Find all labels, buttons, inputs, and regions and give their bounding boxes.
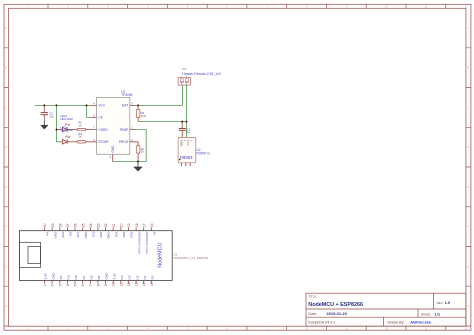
svg-text:22: 22 [104,223,108,227]
svg-text:20: 20 [120,223,124,227]
wire LED branch vertical [57,105,63,141]
svg-text:BAT: BAT [122,104,128,108]
svg-text:CLK: CLK [92,232,96,239]
op-amp U1 TP4056 body [97,98,130,155]
svg-text:EasyEDA V4.9.1: EasyEDA V4.9.1 [308,320,335,324]
wire VCC top rail [35,104,90,106]
svg-text:H: H [5,306,7,308]
svg-text:Header Female-2.54_1x2: Header Female-2.54_1x2 [182,72,221,76]
svg-text:30: 30 [43,223,47,227]
svg-text:25: 25 [81,223,85,227]
svg-text:Vin: Vin [46,232,50,237]
svg-text:24: 24 [89,223,93,227]
svg-text:6: 6 [81,284,85,286]
svg-text:13: 13 [135,282,139,286]
svg-text:LED-3MM: LED-3MM [60,117,73,121]
svg-text:D8: D8 [74,275,78,279]
wire P1 right pin to battery VCC [185,85,187,137]
svg-text:E: E [5,187,7,189]
svg-text:TP4056: TP4056 [121,93,132,97]
svg-text:P1: P1 [183,67,187,71]
svg-text:15: 15 [150,282,154,286]
svg-text:RX: RX [67,275,71,279]
svg-text:SD2: SD2 [122,232,126,238]
svg-text:7: 7 [89,284,93,286]
svg-text:D0: D0 [151,275,155,279]
title block [306,293,466,326]
svg-text:RSV(Don't Use): RSV(Don't Use) [145,232,149,254]
resistor R1 [136,142,138,162]
svg-text:STDBY: STDBY [98,140,110,144]
svg-text:E: E [468,187,470,189]
svg-text:CMD: CMD [107,232,111,240]
svg-text:1: 1 [43,284,47,286]
svg-text:G: G [5,266,7,268]
wire U1 GND pin to ground node [113,161,138,163]
LED LED1 [57,123,78,132]
svg-text:D1: D1 [143,275,147,279]
svg-text:D2: D2 [135,275,139,279]
capacitor C2 [179,122,186,138]
svg-text:1.0: 1.0 [445,300,451,305]
svg-text:C: C [5,108,7,110]
svg-text:19: 19 [127,223,131,227]
svg-text:RSV(Don't Use): RSV(Don't Use) [137,232,141,254]
svg-text:CHRG: CHRG [98,128,108,132]
svg-text:Sheet:: Sheet: [421,312,431,316]
svg-text:CE: CE [98,116,102,120]
ground symbol at U1/R1 [134,162,143,172]
svg-text:GND: GND [105,272,109,280]
svg-text:10R: 10R [141,114,146,118]
svg-text:28: 28 [59,223,63,227]
svg-text:27: 27 [66,223,70,227]
svg-text:D: D [468,147,470,149]
svg-text:D6: D6 [90,275,94,279]
svg-text:A: A [5,27,7,30]
svg-text:RST: RST [61,232,65,238]
svg-text:4: 4 [66,284,70,286]
svg-text:GND: GND [53,232,57,240]
svg-text:SD3: SD3 [130,232,134,238]
U1 pin names [98,104,128,153]
svg-text:9: 9 [104,284,108,286]
svg-text:Drawn By:: Drawn By: [388,320,405,324]
svg-text:H: H [468,306,470,308]
svg-text:D7: D7 [82,275,86,279]
svg-text:NodeMCU: NodeMCU [158,242,164,267]
svg-text:8: 8 [93,113,95,117]
svg-text:TITLE:: TITLE: [308,294,317,298]
svg-text:GND: GND [111,145,115,153]
wire R4 bottom to battery node [138,121,186,123]
svg-text:10: 10 [112,282,116,286]
svg-text:G: G [468,266,470,268]
svg-text:3: 3 [58,284,62,286]
svg-text:29: 29 [51,223,55,227]
junction dots [43,104,45,106]
svg-text:12: 12 [127,282,131,286]
svg-text:7: 7 [93,126,95,130]
svg-text:17: 17 [142,223,146,227]
svg-text:PS#2P-G: PS#2P-G [196,151,210,155]
svg-text:NODEMCU_V1_ESP12E: NODEMCU_V1_ESP12E [174,256,209,260]
svg-text:12: 12 [465,7,468,9]
svg-text:SD1: SD1 [114,232,118,238]
LED LED2 [62,135,77,144]
svg-text:16: 16 [150,223,154,227]
svg-text:PROG: PROG [119,140,129,144]
svg-text:2019-01-20: 2019-01-20 [326,311,347,316]
svg-text:14: 14 [142,282,146,286]
svg-text:F: F [468,227,470,229]
svg-text:AWeleczka: AWeleczka [410,319,431,324]
svg-text:A: A [468,27,470,30]
wire BAT to P1 left pin [136,85,182,105]
svg-text:LED-3MM: LED-3MM [60,128,73,132]
svg-text:GND: GND [84,232,88,240]
svg-text:3.3V: 3.3V [44,272,48,279]
svg-text:GND: GND [51,272,55,280]
svg-text:TEMP: TEMP [119,128,128,132]
svg-text:TX: TX [59,276,63,280]
svg-text:21: 21 [112,223,116,227]
U1 pin numbers [93,101,133,159]
svg-text:1u: 1u [187,130,191,134]
svg-text:REV:: REV: [437,301,444,305]
resistor R2 [77,128,86,130]
U3 module inner rects [19,242,40,267]
svg-text:B: B [468,68,470,70]
resistor R3 [77,141,86,143]
svg-text:GND: GND [179,140,183,146]
svg-text:8: 8 [96,284,100,286]
capacitor C1 [41,105,48,119]
svg-text:3: 3 [110,155,112,159]
svg-text:18650: 18650 [180,155,193,160]
svg-text:B: B [5,68,7,70]
U3 top pins [45,227,152,283]
svg-text:EN: EN [69,232,73,236]
ground symbol below C1 [41,120,48,130]
U2 bottom mount pins [181,163,190,166]
svg-text:SD0: SD0 [99,232,103,238]
svg-text:5: 5 [73,284,77,286]
svg-text:Date:: Date: [308,312,317,316]
svg-text:11: 11 [119,283,123,287]
svg-text:D: D [5,147,7,149]
svg-text:A0: A0 [153,232,157,236]
svg-text:VCC: VCC [98,104,105,108]
connector P1 header female [178,78,191,86]
resistor R4 [137,105,139,121]
svg-text:D3: D3 [128,275,132,279]
wire CE branch [87,105,91,117]
svg-text:26: 26 [74,223,78,227]
svg-text:1: 1 [131,126,133,130]
module U3 NodeMCU body [19,231,172,281]
svg-text:2: 2 [131,138,133,142]
battery holder U2 18650 [178,137,196,162]
wire TEMP to ground node [136,130,146,162]
svg-text:6: 6 [93,138,95,142]
svg-text:D5: D5 [97,275,101,279]
svg-text:C: C [468,108,470,110]
svg-text:3.3V: 3.3V [76,232,80,239]
svg-text:3.3V: 3.3V [112,272,116,279]
svg-text:5: 5 [131,101,133,105]
svg-text:F: F [5,227,7,229]
svg-text:18: 18 [135,223,139,227]
svg-text:4: 4 [93,101,95,105]
svg-text:23: 23 [97,223,101,227]
svg-text:1/1: 1/1 [435,311,441,316]
svg-text:NodeMCU + ESP8266: NodeMCU + ESP8266 [308,302,363,308]
svg-text:10u: 10u [49,114,54,118]
U1 pin stubs [90,105,136,161]
svg-text:2: 2 [51,284,55,286]
svg-text:D4: D4 [120,275,124,279]
